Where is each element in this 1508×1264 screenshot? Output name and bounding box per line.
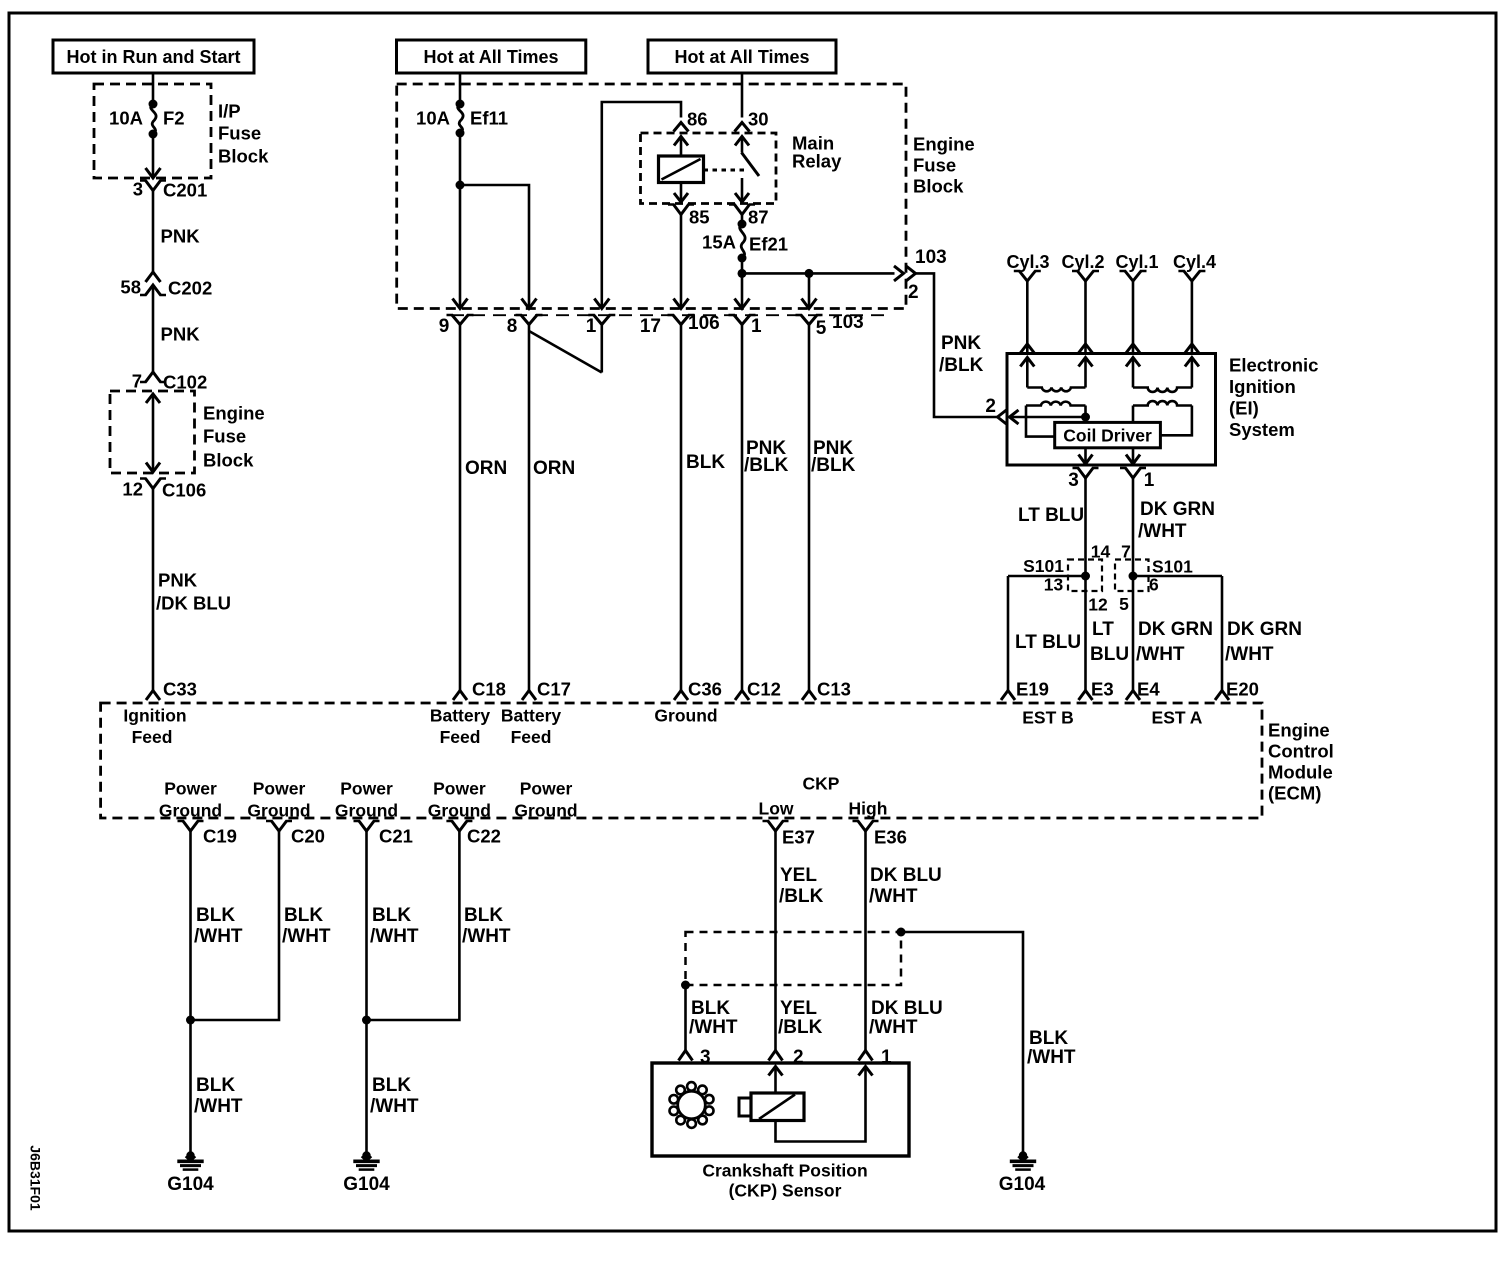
svg-text:Coil Driver: Coil Driver	[1063, 425, 1152, 445]
wire from Hot at All Times left to fuse Ef11	[459, 73, 462, 104]
svg-text:Battery: Battery	[430, 705, 491, 725]
svg-text:C22: C22	[467, 826, 501, 847]
shield drain (dashed) around CKP wires	[681, 928, 906, 990]
CKP internal wiring pin 1	[776, 1067, 873, 1142]
svg-text:PNK: PNK	[941, 333, 981, 354]
wire BLK/WHT (C22 to junction)	[367, 831, 511, 1020]
svg-text:E4: E4	[1137, 679, 1160, 700]
svg-text:30: 30	[748, 109, 769, 130]
svg-text:ORN: ORN	[533, 458, 575, 479]
engine control module (ECM) dashed box	[101, 703, 1334, 818]
svg-text:BLK: BLK	[686, 452, 725, 473]
figure number J6B31F01	[28, 1145, 44, 1211]
ECM pin C36 Ground	[654, 679, 722, 726]
connector face line at fuse block bottom	[451, 314, 884, 316]
wire BLK/WHT (C19 to G104)	[186, 831, 243, 1152]
svg-text:7: 7	[1121, 541, 1131, 561]
svg-text:Power: Power	[164, 778, 217, 798]
wire PNK (C201 to C202)	[153, 191, 200, 273]
svg-text:Hot in Run and Start: Hot in Run and Start	[67, 47, 241, 67]
svg-text:Electronic: Electronic	[1229, 355, 1318, 376]
ECM pin E37 CKP Low	[759, 773, 840, 847]
svg-text:Power: Power	[520, 778, 573, 798]
svg-text:I/P: I/P	[218, 101, 241, 122]
svg-text:/WHT: /WHT	[462, 926, 511, 947]
main relay (dashed box)	[641, 133, 843, 204]
svg-text:Ignition: Ignition	[1229, 376, 1296, 397]
fuse block pin 8	[507, 315, 543, 337]
svg-text:17: 17	[640, 316, 661, 337]
svg-text:87: 87	[748, 207, 769, 228]
svg-text:E20: E20	[1226, 679, 1259, 700]
svg-text:E37: E37	[782, 827, 815, 848]
svg-text:58: 58	[120, 277, 141, 298]
relay pin 87 connector	[729, 205, 769, 228]
fuse F2 10A	[109, 100, 185, 139]
svg-text:/WHT: /WHT	[869, 886, 918, 907]
svg-text:BLK: BLK	[284, 905, 323, 926]
connector C102 pin 7	[132, 371, 208, 393]
ECM pin C17 Battery Feed	[501, 679, 571, 747]
svg-text:BLK: BLK	[464, 905, 503, 926]
splice S101 left	[1008, 541, 1110, 614]
engine fuse block (dashed, main)	[397, 84, 975, 309]
relay contact switch	[704, 137, 760, 203]
svg-text:2: 2	[985, 396, 996, 417]
svg-text:C201: C201	[163, 180, 207, 201]
svg-text:E36: E36	[874, 827, 907, 848]
svg-text:10A: 10A	[109, 108, 143, 129]
connector C202 pin 58	[120, 272, 212, 299]
wire through engine fuse block (up arrow to down arrow)	[146, 394, 160, 472]
ECM pin C19 Power Ground	[159, 778, 237, 846]
fuse block pin 17 / 106	[640, 313, 720, 337]
svg-text:G104: G104	[343, 1174, 390, 1195]
wire BLK/WHT (shield to G104 right)	[901, 932, 1076, 1152]
svg-text:86: 86	[687, 109, 708, 130]
fuse block pin 1 (left)	[586, 315, 616, 337]
wire DK GRN/WHT (S101 to ECM E20)	[1222, 576, 1302, 691]
svg-text:C106: C106	[162, 480, 206, 501]
wire relay 87 to fuse Ef21	[741, 215, 744, 225]
EI secondary coil left (Cyl.3-Cyl.2)	[1020, 358, 1092, 392]
EI pin 2 input (PNK/BLK)	[985, 396, 1090, 425]
svg-text:C202: C202	[168, 278, 212, 299]
svg-text:DK GRN: DK GRN	[1227, 619, 1302, 640]
ECM pin E19 EST B	[1001, 679, 1074, 728]
svg-text:Engine: Engine	[913, 134, 975, 155]
node Hot in Run and Start (power feed box)	[53, 40, 254, 73]
svg-text:Power: Power	[253, 778, 306, 798]
svg-text:Cyl.3: Cyl.3	[1006, 252, 1049, 272]
svg-text:High: High	[849, 798, 888, 818]
svg-text:Hot at All Times: Hot at All Times	[674, 47, 809, 67]
wire PNK/BLK (pin 1 to C12)	[742, 325, 789, 691]
wire Ef11 to fuse block bottom (pin 9)	[453, 133, 468, 309]
svg-text:LT BLU: LT BLU	[1018, 505, 1084, 526]
ECM pin E36 CKP High	[849, 798, 907, 847]
wire ORN (pin 8 to C17) with jumper to pin 1	[529, 325, 602, 691]
svg-text:CKP: CKP	[803, 773, 840, 793]
connector 103 pin 2 at fuse block edge	[906, 247, 947, 303]
svg-text:Engine: Engine	[203, 403, 265, 424]
svg-text:5: 5	[1119, 594, 1129, 614]
svg-text:C21: C21	[379, 826, 413, 847]
svg-text:103: 103	[915, 247, 947, 268]
svg-text:1: 1	[751, 316, 762, 337]
svg-text:12: 12	[122, 479, 143, 500]
relay pin 30 connector	[735, 109, 769, 132]
wire LT BLU (EI pin 3 to splice S101)	[1018, 478, 1086, 576]
svg-text:EST A: EST A	[1152, 707, 1203, 727]
svg-text:(EI): (EI)	[1229, 398, 1259, 419]
svg-text:7: 7	[132, 371, 142, 392]
wire Ef21 to pin 1 and junction	[735, 258, 750, 309]
relay pin 85 connector	[668, 205, 710, 228]
ground G104 (middle)	[343, 1151, 390, 1195]
svg-text:BLK: BLK	[1029, 1028, 1068, 1049]
CKP pickup coil icon	[739, 1093, 804, 1121]
fuse block pin 5 / 103	[796, 312, 864, 339]
svg-text:/WHT: /WHT	[194, 926, 243, 947]
svg-text:YEL: YEL	[780, 865, 817, 886]
svg-text:Low: Low	[759, 798, 794, 818]
svg-text:/WHT: /WHT	[370, 926, 419, 947]
svg-text:Power: Power	[433, 778, 486, 798]
svg-text:Ground: Ground	[159, 800, 222, 820]
svg-text:YEL: YEL	[780, 998, 817, 1019]
CKP reluctor wheel icon	[670, 1082, 714, 1128]
svg-text:C12: C12	[747, 679, 781, 700]
svg-text:13: 13	[1044, 574, 1064, 594]
wire DK GRN/WHT (S101 to ECM E4)	[1133, 576, 1213, 691]
svg-text:J6B31F01: J6B31F01	[28, 1145, 44, 1211]
svg-text:/WHT: /WHT	[1138, 521, 1187, 542]
EI primary coil right	[1133, 401, 1192, 435]
svg-text:Ground: Ground	[335, 800, 398, 820]
ECM Power Ground label (no pin)	[514, 778, 577, 820]
ground G104 (left)	[167, 1151, 214, 1195]
svg-text:PNK: PNK	[161, 226, 201, 247]
wire PNK/BLK (103 to EI system pin 2)	[916, 273, 998, 417]
svg-text:/WHT: /WHT	[194, 1096, 243, 1117]
svg-text:/WHT: /WHT	[1027, 1047, 1076, 1068]
wire relay 86 feed (to pin 1)	[594, 102, 681, 309]
svg-text:PNK: PNK	[158, 570, 198, 591]
svg-text:Cyl.4: Cyl.4	[1173, 252, 1216, 272]
svg-text:System: System	[1229, 419, 1295, 440]
node Cyl.3 spark plug lead	[1006, 252, 1049, 354]
svg-text:C36: C36	[688, 679, 722, 700]
ECM pin C33 Ignition Feed	[123, 679, 197, 747]
svg-text:6: 6	[1149, 574, 1159, 594]
svg-text:(ECM): (ECM)	[1268, 783, 1321, 804]
I/P fuse block (dashed)	[94, 84, 269, 178]
wire ORN (pin 9 to C18)	[460, 325, 507, 691]
svg-text:G104: G104	[167, 1174, 214, 1195]
svg-text:S101: S101	[1023, 556, 1064, 576]
svg-text:PNK: PNK	[161, 324, 201, 345]
svg-text:1: 1	[586, 316, 597, 337]
svg-text:3: 3	[1068, 470, 1079, 491]
svg-text:/BLK: /BLK	[811, 455, 856, 476]
svg-text:103: 103	[832, 312, 864, 333]
svg-text:E3: E3	[1091, 679, 1114, 700]
svg-text:BLK: BLK	[691, 998, 730, 1019]
svg-text:S101: S101	[1152, 556, 1193, 576]
node Cyl.4 spark plug lead	[1173, 252, 1216, 354]
svg-text:LT BLU: LT BLU	[1015, 632, 1081, 653]
svg-text:Module: Module	[1268, 762, 1333, 783]
svg-text:BLK: BLK	[196, 905, 235, 926]
svg-text:/BLK: /BLK	[779, 886, 824, 907]
svg-text:14: 14	[1091, 541, 1111, 561]
svg-text:BLK: BLK	[196, 1075, 235, 1096]
svg-text:Ef11: Ef11	[470, 108, 508, 129]
svg-text:E19: E19	[1016, 679, 1049, 700]
connector C201 pin 3	[133, 179, 208, 201]
ECM pin C18 Battery Feed	[430, 679, 506, 747]
svg-text:Ignition: Ignition	[123, 705, 186, 725]
svg-text:DK GRN: DK GRN	[1140, 499, 1215, 520]
EI output EST B (pin 3)	[1068, 448, 1098, 491]
svg-text:EST B: EST B	[1022, 707, 1074, 727]
svg-text:Fuse: Fuse	[203, 426, 246, 447]
relay coil	[659, 137, 704, 203]
svg-text:F2: F2	[163, 108, 185, 129]
CKP internal wiring pin 2	[769, 1067, 783, 1094]
electronic ignition (EI) system box	[1007, 354, 1318, 466]
ECM pin C21 Power Ground	[335, 778, 413, 846]
svg-text:3: 3	[133, 179, 143, 200]
svg-text:9: 9	[439, 316, 450, 337]
svg-text:C19: C19	[203, 826, 237, 847]
wire PNK/DK BLU (C106 to ECM C33)	[153, 489, 231, 691]
splice S101 right	[1115, 541, 1222, 614]
svg-text:Engine: Engine	[1268, 720, 1330, 741]
svg-text:(CKP) Sensor: (CKP) Sensor	[729, 1180, 842, 1200]
svg-text:DK BLU: DK BLU	[871, 998, 943, 1019]
svg-text:12: 12	[1088, 594, 1108, 614]
svg-text:ORN: ORN	[465, 458, 507, 479]
svg-text:BLK: BLK	[372, 1075, 411, 1096]
svg-text:Block: Block	[203, 450, 254, 471]
svg-text:Battery: Battery	[501, 705, 562, 725]
node Hot at All Times (left box)	[397, 40, 586, 73]
relay pin 86 connector	[674, 109, 708, 132]
wire 103 feed (junction to fuse block edge)	[742, 266, 904, 281]
svg-text:/DK BLU: /DK BLU	[156, 593, 231, 614]
wire PNK/BLK (pin 5 to C13)	[809, 325, 856, 691]
svg-text:/WHT: /WHT	[1225, 644, 1274, 665]
wire LT BLU (S101 to ECM E19)	[1008, 576, 1081, 691]
coil driver box	[1055, 422, 1161, 447]
svg-text:Cyl.2: Cyl.2	[1061, 252, 1104, 272]
wire jumper Ef11 branch to pin 8	[460, 185, 537, 309]
svg-text:DK BLU: DK BLU	[870, 865, 942, 886]
svg-text:Ground: Ground	[428, 800, 491, 820]
svg-text:C18: C18	[472, 679, 506, 700]
svg-text:/WHT: /WHT	[282, 926, 331, 947]
svg-text:Feed: Feed	[511, 727, 552, 747]
wire DK GRN/WHT (EI pin 1 to splice S101)	[1133, 478, 1215, 576]
svg-text:/BLK: /BLK	[939, 355, 984, 376]
svg-text:/BLK: /BLK	[744, 455, 789, 476]
wire DK BLU/WHT (E36 to CKP pin 1)	[859, 831, 943, 1068]
node Cyl.1 spark plug lead	[1115, 252, 1158, 354]
svg-text:5: 5	[816, 318, 827, 339]
svg-text:Ground: Ground	[654, 705, 717, 725]
svg-text:Crankshaft Position: Crankshaft Position	[702, 1160, 867, 1180]
svg-text:85: 85	[689, 207, 710, 228]
wire relay 85 to fuse block bottom (pin 17)	[674, 215, 689, 309]
svg-text:Cyl.1: Cyl.1	[1115, 252, 1158, 272]
EI primary coil left	[1026, 402, 1086, 437]
svg-text:Control: Control	[1268, 741, 1334, 762]
svg-text:Block: Block	[913, 176, 964, 197]
fuse Ef21 15A	[702, 220, 788, 263]
svg-text:Ground: Ground	[514, 800, 577, 820]
svg-text:DK GRN: DK GRN	[1138, 619, 1213, 640]
svg-text:C20: C20	[291, 826, 325, 847]
svg-text:Block: Block	[218, 146, 269, 167]
svg-text:Fuse: Fuse	[218, 123, 261, 144]
wire from Hot at All Times right to relay pin 30	[741, 73, 744, 118]
svg-text:10A: 10A	[416, 108, 450, 129]
wire BLK/WHT (C21 to G104)	[362, 831, 419, 1152]
EI secondary coil right (Cyl.1-Cyl.4)	[1126, 358, 1199, 392]
wire YEL/BLK (E37 to CKP pin 2)	[769, 831, 824, 1068]
svg-text:106: 106	[688, 313, 720, 334]
svg-text:/WHT: /WHT	[1136, 644, 1185, 665]
fuse Ef11 10A	[416, 100, 508, 138]
svg-text:Feed: Feed	[132, 727, 173, 747]
svg-text:BLU: BLU	[1090, 644, 1129, 665]
fuse block pin 1 (right)	[729, 315, 763, 337]
svg-text:/WHT: /WHT	[370, 1096, 419, 1117]
svg-text:Feed: Feed	[440, 727, 481, 747]
svg-text:C13: C13	[817, 679, 851, 700]
engine fuse block left (dashed)	[110, 391, 265, 473]
svg-text:Hot at All Times: Hot at All Times	[423, 47, 558, 67]
svg-text:Ef21: Ef21	[749, 234, 788, 255]
svg-text:1: 1	[1144, 470, 1155, 491]
wire branch to pin 5	[802, 273, 817, 308]
wire from Hot in Run and Start to fuse F2	[152, 73, 155, 104]
ECM pin C13	[802, 679, 851, 700]
ground G104 (right)	[999, 1151, 1046, 1195]
svg-text:/BLK: /BLK	[778, 1017, 823, 1038]
ECM pin E20	[1215, 679, 1259, 700]
svg-text:BLK: BLK	[372, 905, 411, 926]
svg-text:C33: C33	[163, 679, 197, 700]
wire fuse F2 to I/P block edge	[146, 134, 161, 178]
svg-text:/WHT: /WHT	[869, 1017, 918, 1038]
ECM pin C20 Power Ground	[247, 778, 325, 846]
svg-text:LT: LT	[1092, 619, 1114, 640]
node Hot at All Times (right box)	[648, 40, 836, 73]
wire BLK (pin 17 to C36)	[681, 325, 725, 691]
ECM pin E4 EST A	[1126, 679, 1203, 728]
wire BLK/WHT (C20 to junction)	[191, 831, 331, 1020]
svg-text:8: 8	[507, 316, 518, 337]
svg-text:15A: 15A	[702, 232, 736, 253]
wire PNK (C202 to C102)	[153, 285, 200, 372]
crankshaft position (CKP) sensor box	[652, 1063, 909, 1200]
svg-text:Ground: Ground	[247, 800, 310, 820]
svg-text:2: 2	[908, 282, 919, 303]
svg-text:Relay: Relay	[792, 151, 842, 172]
node Cyl.2 spark plug lead	[1061, 252, 1104, 354]
wire BLK/WHT (shield to CKP pin 3)	[679, 985, 738, 1068]
fuse block pin 9	[439, 315, 474, 337]
svg-text:Fuse: Fuse	[913, 155, 956, 176]
svg-text:/WHT: /WHT	[689, 1017, 738, 1038]
EI output EST A (pin 1)	[1120, 448, 1155, 491]
svg-text:G104: G104	[999, 1174, 1046, 1195]
svg-text:Power: Power	[340, 778, 393, 798]
svg-text:C102: C102	[163, 372, 207, 393]
svg-text:C17: C17	[537, 679, 571, 700]
ECM pin C22 Power Ground	[428, 778, 501, 846]
ECM pin E3	[1079, 679, 1114, 700]
wire LT BLU (S101 to ECM E3)	[1086, 576, 1130, 691]
connector C106 pin 12	[122, 479, 206, 501]
ECM pin C12	[735, 679, 781, 700]
